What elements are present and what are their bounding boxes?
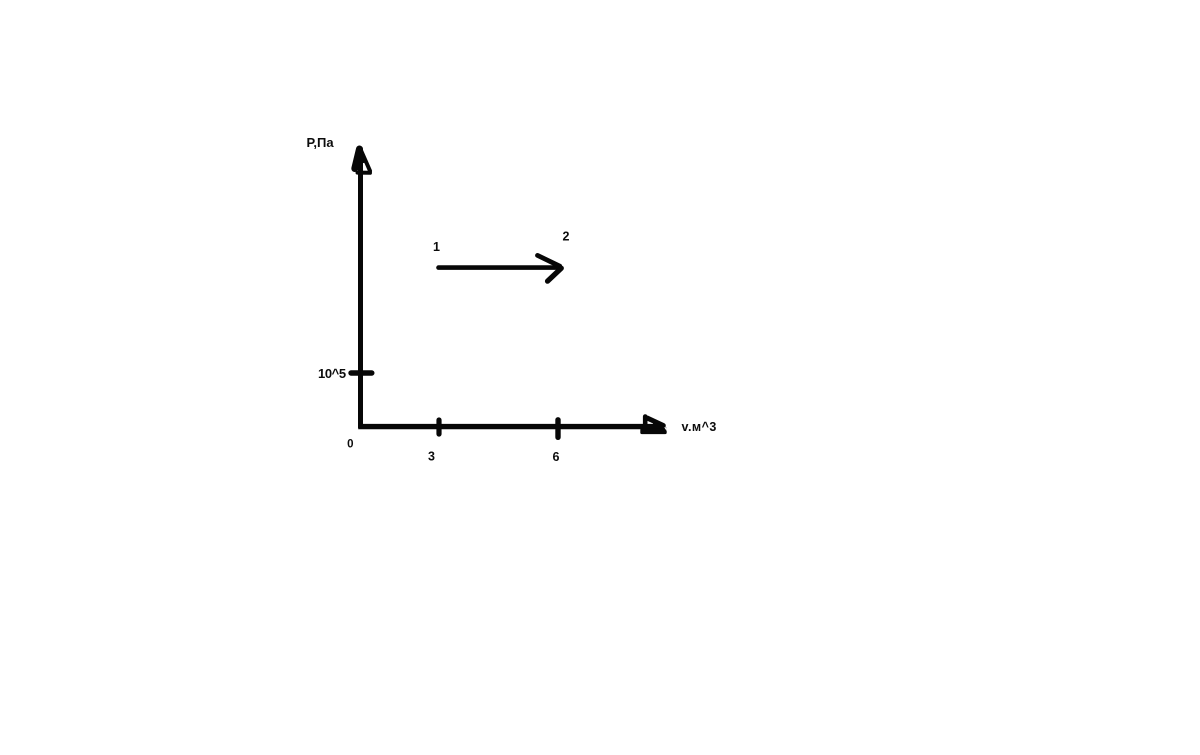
svg-text:1: 1 <box>433 240 440 254</box>
svg-text:10^5: 10^5 <box>318 366 346 381</box>
svg-text:v.м^3: v.м^3 <box>682 420 717 434</box>
svg-text:2: 2 <box>563 230 570 244</box>
svg-text:0: 0 <box>347 439 353 451</box>
svg-text:3: 3 <box>428 450 435 464</box>
svg-text:6: 6 <box>553 450 560 464</box>
svg-text:Р,Па: Р,Па <box>307 135 335 150</box>
